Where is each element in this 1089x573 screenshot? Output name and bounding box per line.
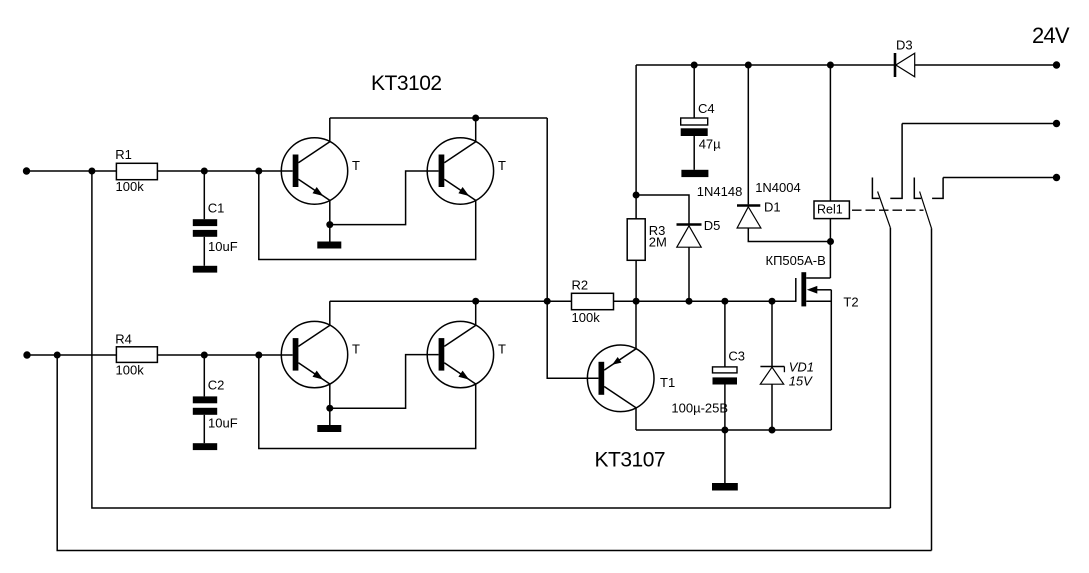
- svg-text:1N4004: 1N4004: [755, 180, 801, 195]
- ground under C2: [193, 443, 217, 450]
- svg-text:100µ-25В: 100µ-25В: [671, 401, 728, 416]
- wire Q3 emitter to ground: [329, 408, 331, 425]
- transistor Q2: [427, 138, 506, 204]
- wire R4 to Q3 base: [157, 354, 292, 356]
- wire Q1 emitter to ground: [329, 225, 331, 242]
- wire Q1 emitter to Q2 base: [330, 171, 439, 225]
- svg-text:100k: 100k: [572, 310, 601, 325]
- svg-text:Rel1: Rel1: [817, 202, 843, 216]
- wire input 2: [27, 354, 116, 356]
- svg-text:T1: T1: [660, 375, 675, 390]
- capacitor C2: [193, 355, 238, 443]
- svg-text:100k: 100k: [116, 363, 145, 378]
- transistor Q4: [427, 321, 506, 387]
- svg-text:R2: R2: [572, 278, 589, 293]
- ground under C1: [193, 266, 217, 273]
- zener diode VD1: [760, 301, 814, 430]
- node Q1 emitter junction: [326, 221, 333, 228]
- node junction J1: [88, 168, 95, 175]
- resistor R3: [627, 219, 667, 301]
- wire contact1 output: [902, 123, 1056, 125]
- wire top rail pair1: [330, 117, 547, 119]
- node C3 top junction: [721, 298, 728, 305]
- node C3 bottom junction: [721, 427, 728, 434]
- relay coil Rel1: [814, 65, 849, 278]
- ground under Q3: [317, 425, 341, 432]
- svg-text:T: T: [352, 342, 360, 357]
- wire top rail: [636, 64, 895, 66]
- svg-text:C1: C1: [208, 201, 225, 216]
- wire T1 collector: [635, 408, 637, 430]
- svg-text:C4: C4: [698, 101, 715, 116]
- node C4 top junction: [691, 62, 698, 69]
- wire T1 emitter: [635, 301, 637, 349]
- diode D1: [737, 65, 831, 242]
- relay contact 2: [914, 178, 943, 229]
- svg-text:КП505А-В: КП505А-В: [766, 253, 826, 268]
- wire Q3 collector: [329, 301, 331, 325]
- node Q3 emitter junction: [326, 405, 333, 412]
- svg-text:T: T: [498, 158, 506, 173]
- wire T1 base: [547, 301, 598, 378]
- svg-text:T: T: [352, 158, 360, 173]
- node D1 top junction: [745, 62, 752, 69]
- relay contact 1: [872, 124, 902, 228]
- svg-text:T: T: [498, 342, 506, 357]
- node junction Q1 base: [255, 168, 262, 175]
- svg-text:C3: C3: [728, 349, 745, 364]
- capacitor C4: [681, 65, 721, 170]
- wire Q2 collector: [475, 118, 477, 142]
- svg-text:10uF: 10uF: [208, 416, 238, 431]
- svg-text:T2: T2: [843, 295, 858, 310]
- svg-text:D5: D5: [704, 218, 721, 233]
- node output terminal 3: [1053, 174, 1060, 181]
- wire Q1 collector: [329, 118, 331, 142]
- wire input 1: [27, 170, 117, 172]
- wire R3 branch vertical: [635, 65, 637, 219]
- svg-text:R4: R4: [115, 332, 132, 347]
- node Q4 collector junction: [472, 298, 479, 305]
- svg-text:1N4148: 1N4148: [697, 184, 743, 199]
- svg-text:10uF: 10uF: [208, 239, 238, 254]
- diode D3: [895, 38, 1057, 78]
- wire contact2 blade down: [931, 228, 933, 550]
- node VD1 top junction: [769, 298, 776, 305]
- wire relay actuator dashed: [852, 209, 924, 211]
- wire contact1 blade down: [889, 228, 891, 508]
- node junction C2 top: [201, 352, 208, 359]
- wire bottom rail pair2: [330, 300, 547, 302]
- resistor R4: [115, 332, 157, 378]
- svg-text:KT3107: KT3107: [595, 449, 666, 472]
- node T2 drain junction: [827, 238, 834, 245]
- svg-text:R1: R1: [115, 147, 132, 162]
- ground under C4: [681, 170, 708, 177]
- svg-text:2M: 2M: [649, 235, 667, 250]
- svg-text:100k: 100k: [116, 179, 145, 194]
- ground under Q1: [317, 242, 341, 249]
- wire input2 to contact2: [57, 355, 931, 551]
- wire input1 to contact1: [92, 171, 891, 508]
- wire Q4 collector: [475, 301, 477, 325]
- wire feedback pair1: [259, 171, 476, 260]
- node VD1 bottom junction: [769, 427, 776, 434]
- capacitor C3: [671, 301, 745, 430]
- transistor T1: [587, 345, 675, 412]
- wire bottom net: [636, 429, 831, 431]
- node R3 bottom junction: [633, 298, 640, 305]
- diode D5: [636, 195, 720, 301]
- transistor Q3: [281, 321, 360, 387]
- node R2 left junction: [544, 298, 551, 305]
- node output terminal 2: [1053, 120, 1060, 127]
- node junction J2: [54, 352, 61, 359]
- node Rel1 top junction: [827, 62, 834, 69]
- svg-text:KT3102: KT3102: [371, 72, 442, 95]
- wire feedback pair2: [259, 355, 476, 449]
- wire R2 to T2 gate: [614, 300, 796, 302]
- svg-text:D3: D3: [896, 38, 913, 53]
- wire R1 to Q1 base: [157, 170, 292, 172]
- resistor R1: [115, 147, 157, 194]
- wire rail down to R2 node: [546, 118, 548, 301]
- svg-text:24V: 24V: [1032, 23, 1070, 48]
- svg-text:C2: C2: [208, 378, 225, 393]
- node input1 terminal: [23, 167, 30, 174]
- wire Q3 emitter: [329, 384, 331, 408]
- wire Q1 emitter: [329, 200, 331, 224]
- capacitor C1: [193, 171, 238, 266]
- resistor R2: [547, 278, 613, 326]
- svg-text:VD1: VD1: [789, 360, 814, 375]
- transistor Q1: [281, 138, 360, 204]
- node input2 terminal: [23, 351, 30, 358]
- wire contact2 output: [943, 177, 1056, 179]
- mosfet T2: [766, 253, 859, 430]
- svg-text:D1: D1: [764, 200, 781, 215]
- svg-text:15V: 15V: [789, 374, 813, 389]
- node junction Q3 base: [255, 352, 262, 359]
- svg-text:47µ: 47µ: [699, 137, 721, 152]
- node D5 top junction: [633, 192, 640, 199]
- node Q2 collector junction: [472, 115, 479, 122]
- wire Q3 emitter to Q4 base: [330, 355, 439, 409]
- node D5 bottom junction: [686, 298, 693, 305]
- node 24V terminal: [1053, 61, 1060, 68]
- ground center: [712, 430, 738, 491]
- node junction C1 top: [201, 168, 208, 175]
